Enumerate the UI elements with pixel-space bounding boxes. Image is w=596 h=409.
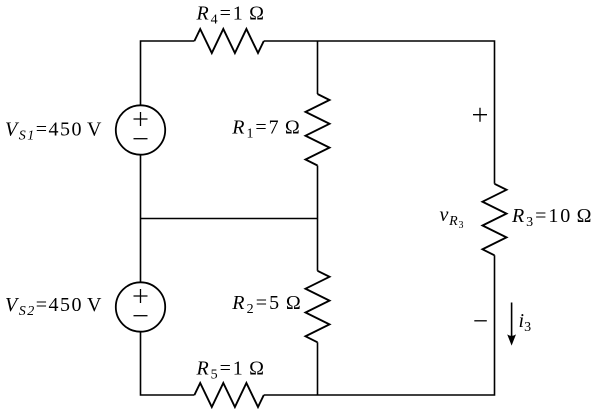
voltage source VS1 circle <box>116 105 165 154</box>
VS2 minus sign <box>134 315 148 317</box>
wire top-right corner <box>264 41 495 184</box>
wire top-left corner <box>141 41 195 105</box>
wire middle horizontal <box>141 218 318 220</box>
resistor R4 <box>194 29 263 53</box>
svg-text:R3=10 Ω: R3=10 Ω <box>511 205 592 230</box>
svg-text:R5=1 Ω: R5=1 Ω <box>196 357 265 382</box>
resistor R5 <box>194 383 263 407</box>
svg-text:R2=5 Ω: R2=5 Ω <box>231 292 300 317</box>
wire left between sources <box>140 155 142 283</box>
wire middle branch top <box>317 41 319 94</box>
wire bottom-left corner <box>141 332 195 395</box>
VS1 minus sign <box>134 138 148 140</box>
wire middle branch centre <box>317 166 319 271</box>
resistor R1 <box>306 94 330 166</box>
resistor R2 <box>306 271 330 343</box>
node minus label (right branch) <box>474 320 487 322</box>
VS2 plus sign <box>134 289 148 303</box>
voltage source VS2 circle <box>116 282 165 331</box>
svg-text:R1=7 Ω: R1=7 Ω <box>231 116 299 141</box>
wire bottom-right corner <box>264 255 495 395</box>
VS1 plus sign <box>134 108 488 321</box>
wire middle branch bottom <box>317 342 319 395</box>
resistor R3 <box>483 184 507 256</box>
current arrow i3 <box>507 303 516 346</box>
svg-text:R4=1 Ω: R4=1 Ω <box>196 3 265 28</box>
node plus label (right branch) <box>473 108 487 122</box>
